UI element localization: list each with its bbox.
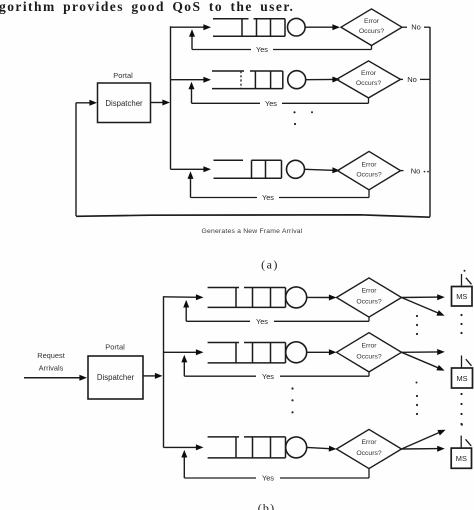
svg-text:Yes: Yes (256, 317, 268, 326)
queue 1 server circle (a) (288, 18, 306, 36)
svg-text:MS: MS (456, 374, 467, 383)
decision diamond 1 (a) text (359, 18, 385, 35)
wire vertical into MS 3 top (b) (460, 436, 462, 448)
svg-text:Error: Error (361, 342, 377, 349)
dot below decision 2 diagonal (b) (416, 382, 418, 384)
wire request input arrow (b) (24, 375, 87, 381)
label No 3 (a) (401, 166, 429, 175)
svg-text:MS: MS (456, 454, 467, 463)
svg-text:Yes: Yes (262, 193, 274, 202)
wire Yes feedback 3 (b) (184, 469, 369, 483)
wire server 1 to decision (b) (307, 295, 337, 301)
wire server 2 to decision (a) (306, 77, 340, 83)
label Request Arrivals (b) (37, 351, 65, 373)
svg-text:Error: Error (361, 161, 377, 168)
wire Yes feedback 2 up arrow (b) (181, 355, 187, 376)
MS box 2 (b) (452, 368, 473, 388)
queue 2 buffer (a) (212, 71, 283, 89)
wire decision 1 horizontal arrow to MS (b) (402, 294, 445, 300)
wire decision 1 diagonal arrow (b) (402, 298, 445, 316)
wire right collector vertical (a) (429, 27, 431, 217)
wire diagonal into MS 1 top (b) (466, 278, 472, 285)
dispatcher box (a) (98, 83, 151, 123)
svg-text:Portal: Portal (113, 71, 133, 80)
wire bottom feedback line (a) (76, 215, 430, 217)
wire Yes feedback 3 (a) (191, 190, 370, 202)
svg-text:gorithm provides good QoS to t: gorithm provides good QoS to the user. (0, 0, 294, 14)
label MS 3 (b) (456, 454, 467, 463)
decision diamond 3 (b) (337, 429, 402, 468)
wire server 1 to decision (a) (306, 24, 341, 30)
wire queue 2 input arrow (b) (164, 349, 204, 355)
queue 2 server circle (b) (286, 342, 307, 363)
caption (b) (258, 501, 276, 510)
label Generates a New Frame Arrival (a) (202, 228, 303, 235)
svg-text:Yes: Yes (262, 474, 274, 483)
queue 2 server circle (a) (288, 71, 306, 89)
svg-text:Yes: Yes (265, 99, 277, 108)
label Portal (a) (113, 71, 133, 80)
decision diamond 2 (a) text (356, 70, 382, 87)
svg-text:Occurs?: Occurs? (359, 28, 385, 35)
svg-text:Generates a New Frame Arrival: Generates a New Frame Arrival (202, 228, 303, 235)
queue 3 server circle (a) (287, 160, 305, 178)
svg-text:No: No (407, 75, 417, 84)
wire main branch vertical (a) (170, 26, 172, 169)
decision diamond 1 (a) (341, 9, 402, 46)
wire server 3 to decision (a) (305, 167, 340, 173)
wire main branch vertical (b) (163, 296, 165, 447)
wire decision 2 diagonal arrow (b) (402, 352, 445, 370)
wire vertical into MS 2 top (b) (461, 356, 463, 368)
label Dispatcher (a) (105, 99, 143, 108)
label Dispatcher (b) (97, 373, 135, 382)
ellipsis dots mid rows (a) (293, 111, 313, 125)
wire decision 3 horizontal arrow to MS (b) (402, 446, 445, 452)
wire vertical into MS 1 top (b) (461, 274, 463, 286)
queue 1 server circle (b) (286, 287, 307, 308)
svg-text:Dispatcher: Dispatcher (105, 99, 143, 108)
wire arrow into dispatcher (a) (76, 100, 97, 106)
dot above MS1 (b) (464, 270, 466, 272)
queue 3 buffer (b) (208, 437, 286, 458)
MS box 3 (b) (451, 448, 471, 468)
wire dispatcher output arrow (a) (151, 100, 171, 106)
svg-text:No: No (411, 166, 421, 175)
svg-text:MS: MS (456, 292, 467, 301)
queue 3 server circle (b) (286, 437, 307, 458)
decision diamond 1 (b) text (356, 288, 382, 306)
decision diamond 3 (b) text (356, 439, 382, 457)
wire queue 1 input arrow (a) (171, 24, 212, 30)
svg-text:Yes: Yes (262, 372, 274, 381)
wire Yes feedback 1 up arrow (a) (189, 29, 195, 49)
svg-text:Occurs?: Occurs? (356, 171, 382, 178)
ellipsis dots above MS3 (b) (461, 424, 463, 426)
svg-text:Portal: Portal (105, 343, 125, 352)
svg-text:(a): (a) (261, 258, 279, 272)
wire server 3 to decision (b) (307, 446, 337, 452)
svg-text:(b): (b) (258, 501, 276, 510)
wire Yes feedback 2 up arrow (a) (189, 82, 195, 104)
ellipsis dots below decision 1 (b) (416, 315, 418, 335)
caption text line (0, 0, 294, 14)
label Portal (b) (105, 343, 125, 352)
svg-text:No: No (411, 23, 421, 32)
queue 2 buffer (b) (208, 343, 286, 363)
label No 2 (a) (401, 75, 431, 84)
decision diamond 2 (b) (337, 333, 402, 372)
decision diamond 2 (a) (337, 61, 401, 98)
wire diagonal into MS 3 top (b) (466, 439, 472, 446)
wire server 2 to decision (b) (307, 349, 337, 355)
wire decision 2 horizontal arrow to MS (b) (402, 349, 445, 355)
ellipsis dots between MS2 MS3 (b) (460, 393, 462, 425)
wire queue 2 input arrow (a) (171, 77, 212, 83)
wire queue 1 input arrow (b) (164, 294, 204, 300)
svg-text:Occurs?: Occurs? (356, 80, 382, 87)
wire Yes feedback 3 up arrow (a) (188, 171, 194, 197)
label MS 2 (b) (456, 374, 467, 383)
wire diagonal into MS 2 top (b) (466, 359, 472, 366)
svg-text:Request: Request (37, 351, 65, 360)
wire queue 3 input arrow (b) (164, 444, 204, 450)
wire Yes feedback 1 (b) (186, 317, 369, 326)
svg-text:Occurs?: Occurs? (356, 354, 382, 361)
decision diamond 3 (a) (338, 151, 401, 189)
wire Yes feedback 3 up arrow (b) (181, 450, 187, 478)
wire left feedback vertical (a) (75, 103, 77, 216)
wire Yes feedback 2 (a) (192, 98, 369, 108)
svg-text:Error: Error (361, 439, 377, 446)
queue 3 buffer (a) (214, 160, 282, 178)
svg-text:Yes: Yes (256, 45, 268, 54)
svg-text:Error: Error (361, 288, 377, 295)
wire dispatcher output arrow (b) (143, 373, 163, 379)
decision diamond 3 (a) text (356, 161, 382, 178)
ellipsis dots below decision 2 (b) (416, 395, 418, 415)
MS box 1 (b) (452, 287, 473, 307)
ellipsis dots between MS1 MS2 (b) (460, 314, 462, 334)
wire Yes feedback 2 (b) (184, 372, 369, 381)
svg-text:Occurs?: Occurs? (356, 299, 382, 306)
svg-text:Error: Error (361, 70, 377, 77)
wire queue 3 input arrow (a) (171, 166, 212, 172)
decision diamond 1 (b) (337, 278, 402, 317)
queue 1 buffer (a) (213, 19, 285, 37)
wire Yes feedback 1 up arrow (b) (183, 300, 189, 321)
svg-text:Dispatcher: Dispatcher (97, 373, 135, 382)
queue 1 buffer (b) (208, 288, 286, 308)
label No 1 (a) (402, 23, 430, 32)
wire decision 3 diagonal arrow (b) (402, 430, 446, 449)
ellipsis dots mid queue column (b) (291, 387, 293, 413)
decision diamond 2 (b) text (356, 342, 382, 360)
caption (a) (261, 258, 279, 272)
wire Yes feedback 1 (a) (192, 45, 372, 54)
svg-text:Error: Error (364, 18, 380, 25)
svg-text:Arrivals: Arrivals (39, 364, 64, 373)
label MS 1 (b) (456, 292, 467, 301)
dispatcher box (b) (88, 356, 143, 399)
svg-text:Occurs?: Occurs? (356, 450, 382, 457)
